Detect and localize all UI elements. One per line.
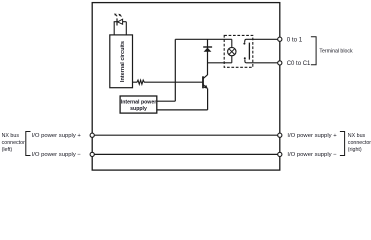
- svg-text:I/O power supply −: I/O power supply −: [287, 152, 337, 158]
- svg-text:0 to 1: 0 to 1: [287, 36, 303, 43]
- svg-text:(right): (right): [348, 147, 362, 153]
- svg-text:Internal circuits: Internal circuits: [120, 41, 126, 82]
- svg-text:connector: connector: [2, 140, 25, 146]
- svg-text:I/O power supply −: I/O power supply −: [32, 152, 82, 158]
- svg-text:I/O power supply +: I/O power supply +: [287, 133, 337, 139]
- svg-text:connector: connector: [348, 140, 371, 146]
- svg-text:NX bus: NX bus: [2, 133, 20, 139]
- svg-text:C0 to C1: C0 to C1: [287, 61, 311, 67]
- svg-text:I/O power supply +: I/O power supply +: [32, 133, 82, 139]
- svg-text:Terminal block: Terminal block: [319, 48, 353, 54]
- svg-text:Internal power: Internal power: [121, 99, 156, 105]
- svg-text:supply: supply: [130, 106, 147, 112]
- svg-text:NX bus: NX bus: [348, 133, 366, 139]
- svg-text:(left): (left): [2, 147, 13, 153]
